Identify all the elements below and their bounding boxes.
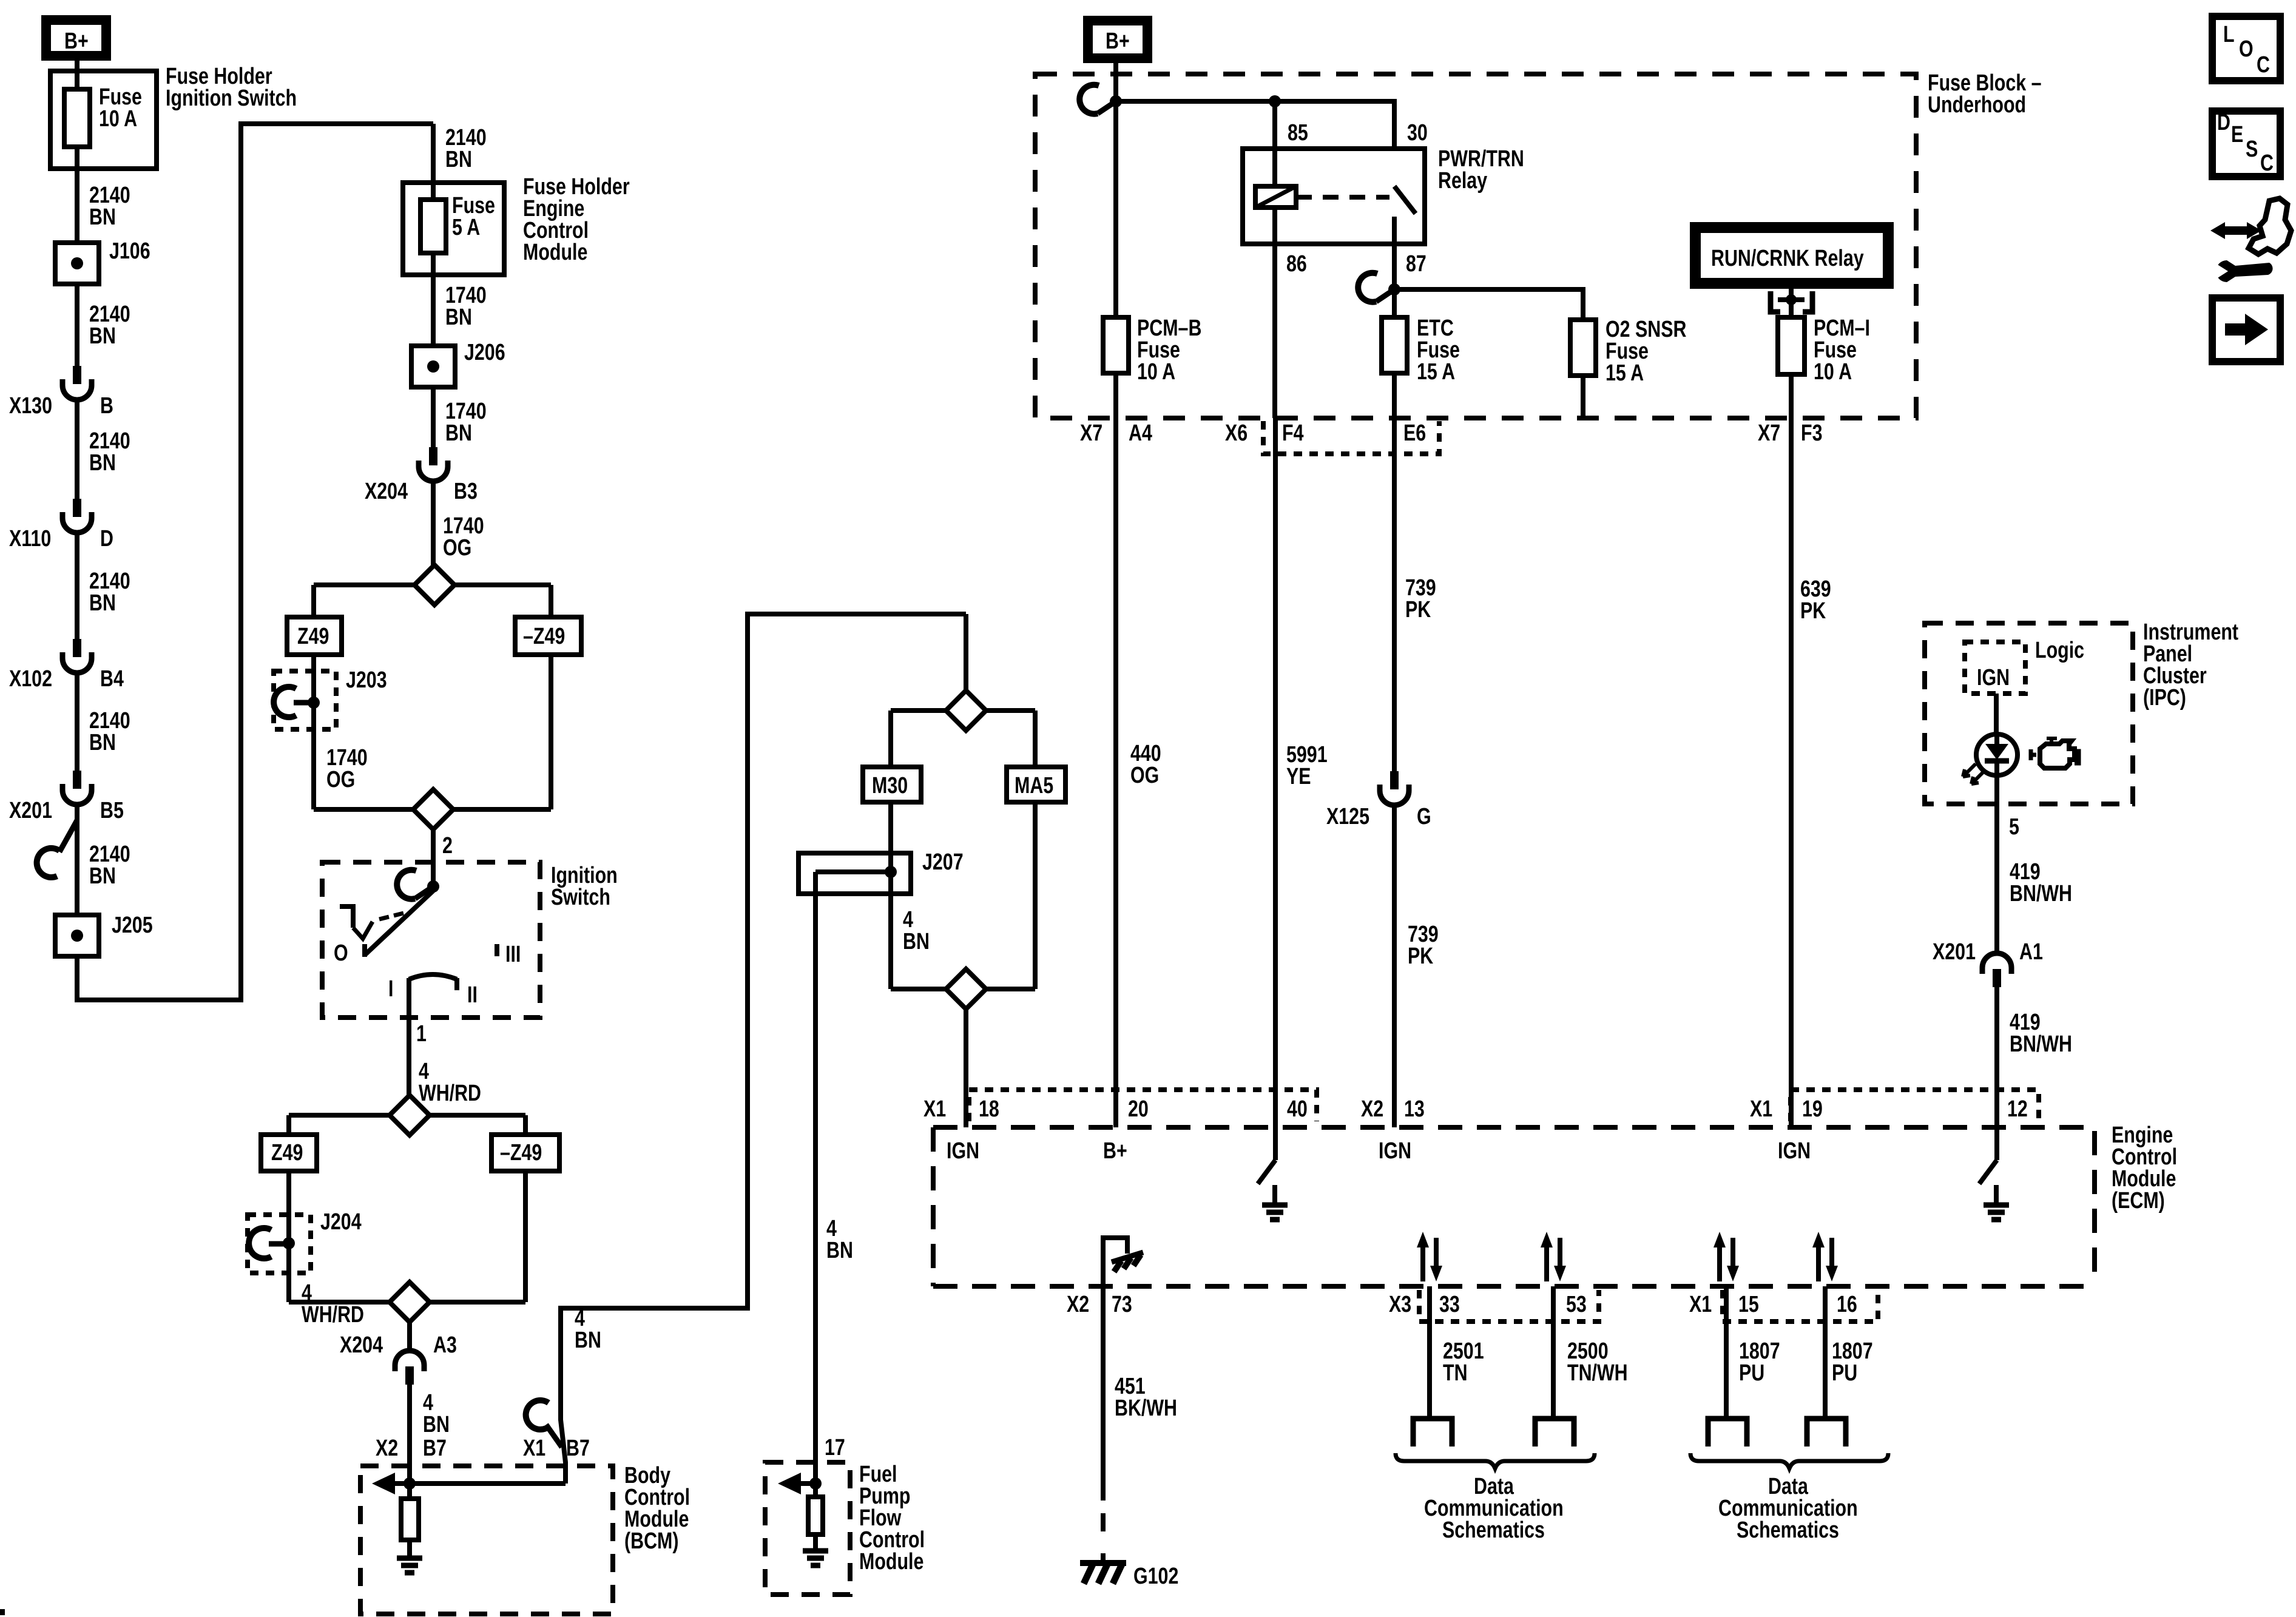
grounds distribution cell Z49 xyxy=(287,617,342,655)
svg-text:13: 13 xyxy=(1404,1096,1425,1122)
svg-text:(IPC): (IPC) xyxy=(2143,685,2186,711)
svg-text:B+: B+ xyxy=(64,29,89,54)
svg-text:RUN/CRNK Relay: RUN/CRNK Relay xyxy=(1711,246,1864,271)
wire 1807 PU (pin 15) xyxy=(1724,1286,1729,1419)
data link arrows at pins 33/53 xyxy=(1420,1245,1425,1281)
connector dashed box F4/E6 xyxy=(1263,421,1439,454)
connector X201 pin B5 xyxy=(73,771,81,789)
wire MA5 down xyxy=(1033,802,1038,989)
fuse block underhood dashed box xyxy=(1035,74,1916,418)
wire to ECM pin 13, label 739 PK xyxy=(1392,805,1397,1127)
svg-text:X2: X2 xyxy=(376,1436,398,1461)
svg-text:Ignition Switch: Ignition Switch xyxy=(166,86,297,111)
fuel pump module resistor xyxy=(813,1475,818,1497)
svg-text:X130: X130 xyxy=(9,393,52,419)
fuse holder Ignition Switch box xyxy=(50,71,157,169)
svg-text:BN: BN xyxy=(423,1412,450,1437)
svg-text:53: 53 xyxy=(1566,1292,1587,1317)
svg-text:Underhood: Underhood xyxy=(1928,92,2026,118)
svg-text:G102: G102 xyxy=(1133,1564,1178,1589)
svg-text:BK/WH: BK/WH xyxy=(1115,1396,1177,1421)
svg-text:PU: PU xyxy=(1832,1360,1857,1386)
svg-text:PK: PK xyxy=(1408,944,1433,969)
BCM internal resistor xyxy=(407,1484,412,1499)
ECM internal chassis ground at pin 73 xyxy=(1103,1238,1127,1286)
svg-text:X102: X102 xyxy=(9,666,52,692)
hook at 87 junction xyxy=(1358,273,1377,302)
wire E6 down, label 739 PK xyxy=(1392,418,1397,771)
wire IGN to indicator LED xyxy=(1994,694,1999,734)
wire terminal 87 down with junction xyxy=(1392,244,1397,317)
PCM-I fuse (10 A) xyxy=(1778,317,1805,374)
PWR/TRN relay box xyxy=(1243,149,1425,244)
svg-text:–Z49: –Z49 xyxy=(500,1140,542,1166)
svg-text:J205: J205 xyxy=(112,913,153,938)
instrument panel cluster dashed box xyxy=(1925,623,2133,804)
svg-text:B7: B7 xyxy=(566,1436,590,1461)
wire to ECM pin 18 xyxy=(964,1009,968,1127)
grounds cell -Z49 (lower) xyxy=(491,1135,559,1171)
svg-text:OG: OG xyxy=(443,535,471,561)
ECM pin connector strip right (19/12) xyxy=(1791,1090,2039,1121)
wire to ECM pin 12, label 419 BN/WH xyxy=(1994,987,1999,1127)
svg-text:Z49: Z49 xyxy=(271,1140,303,1166)
svg-text:M30: M30 xyxy=(872,773,908,798)
check engine icon xyxy=(2031,749,2036,760)
svg-text:B5: B5 xyxy=(100,798,124,823)
svg-text:X204: X204 xyxy=(340,1332,383,1358)
svg-text:S: S xyxy=(2246,137,2258,162)
svg-text:J106: J106 xyxy=(109,238,150,264)
svg-text:BN: BN xyxy=(445,147,472,172)
svg-text:Schematics: Schematics xyxy=(1737,1517,1839,1543)
wire from J205 down and around to ECM 5A fuse feed xyxy=(77,124,433,1000)
wire right branch lower xyxy=(523,1171,528,1302)
engine control module ECM dashed box xyxy=(933,1127,2095,1286)
logic dashed box with IGN xyxy=(1965,642,2025,694)
svg-text:18: 18 xyxy=(979,1096,999,1122)
ECM pin labels X2/13 xyxy=(1361,1096,1383,1122)
relay coil xyxy=(1255,186,1296,208)
svg-text:X7: X7 xyxy=(1080,420,1102,446)
wire 2140 BN segment 3 xyxy=(75,400,79,499)
svg-text:BN: BN xyxy=(826,1238,853,1263)
fuse holder Engine Control Module box xyxy=(403,183,504,275)
svg-text:B: B xyxy=(100,393,113,419)
terminal clip under RUN/CRNK relay xyxy=(1789,283,1794,317)
connector strip X3 (33/53) xyxy=(1419,1290,1599,1322)
svg-text:(ECM): (ECM) xyxy=(2112,1188,2165,1214)
wire 1740 OG to splice diamond xyxy=(431,481,436,565)
wire 2500 TN/WH xyxy=(1551,1286,1556,1419)
svg-text:Module: Module xyxy=(859,1549,923,1575)
svg-text:PK: PK xyxy=(1405,597,1431,623)
svg-text:X6: X6 xyxy=(1225,420,1248,446)
wire left branch through J204 xyxy=(286,1171,291,1302)
fuel pump module arrow and junction xyxy=(778,1473,801,1494)
ignition switch internal: junction dot and hook xyxy=(427,880,439,893)
ETC fuse (15 A) xyxy=(1382,317,1407,373)
splice J204 (dashed) xyxy=(248,1215,311,1273)
indicator LED (MIL) xyxy=(1976,734,2017,775)
hook lead at X201 xyxy=(59,820,77,852)
svg-text:I: I xyxy=(388,976,393,1002)
wire F4 to ECM pin 40, label 5991 YE xyxy=(1273,418,1278,1127)
svg-text:F3: F3 xyxy=(1801,420,1822,446)
svg-text:Module: Module xyxy=(523,240,587,265)
wire ignition sw pin 1 down, label 1 / 4 WH/RD xyxy=(407,978,411,1095)
svg-text:TN/WH: TN/WH xyxy=(1567,1360,1628,1386)
label I position xyxy=(388,976,393,1002)
relay dashed actuator link xyxy=(1296,195,1389,200)
svg-text:2: 2 xyxy=(442,833,453,859)
labels X1 B7 xyxy=(523,1436,545,1461)
splice J203 (dashed) xyxy=(274,671,336,729)
svg-text:J204: J204 xyxy=(320,1209,362,1235)
legend icon wrench and arrow xyxy=(2210,222,2261,239)
svg-text:G: G xyxy=(1417,804,1431,829)
svg-text:O: O xyxy=(2239,36,2254,62)
O2 SNSR fuse (15 A) xyxy=(1570,320,1596,376)
svg-text:1: 1 xyxy=(416,1021,427,1047)
svg-text:BN: BN xyxy=(445,420,472,446)
svg-text:C: C xyxy=(2260,150,2274,176)
brace data communication right xyxy=(1690,1453,1888,1468)
ECM internal ground switch at pin 40 xyxy=(1273,1127,1278,1160)
svg-text:85: 85 xyxy=(1288,120,1308,146)
svg-text:15 A: 15 A xyxy=(1606,360,1644,386)
svg-text:17: 17 xyxy=(825,1435,845,1460)
svg-text:IGN: IGN xyxy=(1977,665,2010,690)
ignition switch OFF contact bracket xyxy=(340,906,353,928)
svg-text:BN: BN xyxy=(89,730,116,755)
svg-text:X110: X110 xyxy=(9,526,51,552)
svg-text:73: 73 xyxy=(1112,1292,1132,1317)
svg-text:15 A: 15 A xyxy=(1417,359,1455,385)
svg-text:B+: B+ xyxy=(1103,1138,1127,1164)
wire label 4 BN (riser) xyxy=(575,1306,585,1331)
relay switch blade xyxy=(1394,186,1416,214)
svg-text:F4: F4 xyxy=(1282,420,1303,446)
svg-text:J203: J203 xyxy=(346,667,387,693)
wire 2501 TN xyxy=(1427,1286,1432,1419)
svg-text:X1: X1 xyxy=(1689,1292,1712,1317)
splice diamond (top of M30 loop) xyxy=(891,708,1035,713)
svg-text:B+: B+ xyxy=(1106,29,1130,54)
svg-text:MA5: MA5 xyxy=(1015,773,1053,798)
svg-text:X2: X2 xyxy=(1067,1292,1089,1317)
svg-text:BN: BN xyxy=(445,305,472,330)
svg-text:D: D xyxy=(2217,110,2230,135)
splice diamond (bottom of M30 loop) xyxy=(891,987,1035,991)
splice J106 xyxy=(55,243,99,284)
svg-text:E6: E6 xyxy=(1403,420,1426,446)
splice J206 xyxy=(411,346,455,387)
splice J205 xyxy=(55,915,99,956)
splice diamond (top of Z49 loop) xyxy=(314,582,551,587)
wire B+ down to bus junction xyxy=(1113,63,1118,101)
svg-text:IGN: IGN xyxy=(1379,1138,1411,1164)
hook at bus left end xyxy=(1079,85,1099,114)
ECM internal labels IGN / B+ / IGN / IGN xyxy=(947,1138,979,1164)
fuse block bottom terminal labels xyxy=(1080,420,1102,446)
relay terminal labels 86 / 87 xyxy=(1286,251,1307,277)
wire 2140 BN segment 1 xyxy=(75,169,79,243)
wire IPC pin 5 down xyxy=(1994,776,1999,953)
svg-text:III: III xyxy=(505,942,521,967)
wire terminal 86 down to F4 xyxy=(1272,244,1277,418)
svg-text:10 A: 10 A xyxy=(99,106,137,132)
wire F3 to ECM pin 19, label 639 PK xyxy=(1789,418,1794,1127)
svg-text:BN: BN xyxy=(89,323,116,349)
fuse cell M30 xyxy=(863,767,921,802)
data link arrows at pins 15/16 xyxy=(1717,1245,1722,1281)
svg-text:33: 33 xyxy=(1439,1292,1460,1317)
wire 2140 BN segment 5 xyxy=(75,673,79,771)
svg-text:10 A: 10 A xyxy=(1814,359,1852,385)
PCM-B fuse (10 A) xyxy=(1113,101,1118,418)
ground G102 xyxy=(1101,1553,1106,1563)
LED emission arrows xyxy=(1963,764,1976,777)
label II position xyxy=(467,982,478,1008)
svg-text:Schematics: Schematics xyxy=(1442,1517,1545,1543)
svg-text:OG: OG xyxy=(1130,763,1159,788)
wire 1740 BN segment 1 xyxy=(431,275,436,346)
svg-text:PU: PU xyxy=(1739,1360,1764,1386)
ECM pin connector strip left (18/20/40) xyxy=(969,1090,1317,1121)
svg-text:30: 30 xyxy=(1407,120,1428,146)
svg-text:A4: A4 xyxy=(1129,420,1152,446)
svg-text:TN: TN xyxy=(1443,1360,1468,1386)
svg-text:J207: J207 xyxy=(922,849,964,875)
svg-text:D: D xyxy=(100,526,113,552)
svg-text:86: 86 xyxy=(1286,251,1307,277)
fuse F (10 A) inside holder xyxy=(75,71,79,169)
wire M30 down through J207 xyxy=(888,802,893,989)
svg-text:WH/RD: WH/RD xyxy=(302,1302,364,1328)
legend icon DESC xyxy=(2212,111,2280,177)
svg-text:PK: PK xyxy=(1800,598,1826,624)
fuse cell MA5 xyxy=(1007,767,1065,802)
svg-text:BN: BN xyxy=(89,863,116,889)
power symbol B+ (battery feed, left) xyxy=(46,20,106,56)
wire right branch xyxy=(549,655,553,809)
svg-text:X3: X3 xyxy=(1389,1292,1411,1317)
svg-text:B3: B3 xyxy=(454,479,478,504)
branch wire to O2 SNSR fuse xyxy=(1394,289,1583,320)
svg-text:B4: B4 xyxy=(100,666,124,692)
svg-text:Switch: Switch xyxy=(551,885,610,910)
fuel pump module ground xyxy=(803,1548,828,1554)
bus wire to relay terminals 85 and 30 xyxy=(1116,101,1394,149)
svg-text:BN: BN xyxy=(903,929,930,954)
labels X2 B7 at BCM xyxy=(376,1436,398,1461)
wire label 4 BN below J207 xyxy=(903,907,913,933)
svg-text:40: 40 xyxy=(1287,1096,1308,1122)
svg-text:Relay: Relay xyxy=(1438,168,1487,194)
brace data communication left xyxy=(1396,1453,1595,1468)
fuel pump flow control module dashed box xyxy=(765,1462,850,1595)
wire label 2140 BN at top of riser xyxy=(445,125,487,150)
fuse F (5 A) inside holder xyxy=(431,124,436,275)
position arc I-II xyxy=(409,974,457,979)
svg-text:BN: BN xyxy=(89,450,116,476)
svg-text:–Z49: –Z49 xyxy=(523,624,565,649)
svg-text:E: E xyxy=(2231,122,2243,147)
wire 451 BK/WH to G102 xyxy=(1101,1286,1106,1482)
svg-text:20: 20 xyxy=(1128,1096,1149,1122)
svg-text:19: 19 xyxy=(1802,1096,1823,1122)
connector X204 pin B3 xyxy=(429,447,437,465)
svg-text:BN/WH: BN/WH xyxy=(2010,1031,2072,1057)
connector strip X1 (15/16) xyxy=(1723,1290,1878,1322)
splice J207 (box with tap) xyxy=(799,853,911,894)
svg-text:WH/RD: WH/RD xyxy=(419,1081,481,1106)
wire A4 to ECM pin 20, label 440 OG xyxy=(1113,418,1118,1127)
wire B+ to fuse holder xyxy=(75,61,79,71)
body control module BCM dashed box xyxy=(360,1466,613,1614)
svg-text:BN: BN xyxy=(89,204,116,230)
svg-text:B7: B7 xyxy=(423,1436,447,1461)
label O (off position) xyxy=(334,940,348,966)
wire 1740 BN segment 2 xyxy=(431,387,436,447)
relay terminal labels 85 / 30 xyxy=(1288,120,1308,146)
wire 2140 BN segment 6 xyxy=(75,805,79,915)
svg-text:X1: X1 xyxy=(523,1436,545,1461)
wire 2140 BN segment 4 xyxy=(75,533,79,639)
wire 4 BN into BCM xyxy=(407,1385,412,1487)
labels X2 / 73 xyxy=(1067,1292,1089,1317)
connector X130 pin B xyxy=(73,366,81,384)
svg-text:A3: A3 xyxy=(433,1332,457,1358)
svg-text:X125: X125 xyxy=(1326,804,1369,829)
svg-text:BN/WH: BN/WH xyxy=(2010,881,2072,906)
svg-text:X204: X204 xyxy=(365,479,408,504)
label III position with tick xyxy=(495,944,499,956)
wire to ignition switch pin 2 xyxy=(431,829,436,888)
svg-text:X1: X1 xyxy=(923,1096,946,1122)
svg-text:YE: YE xyxy=(1286,764,1311,789)
wire 1807 PU (pin 16) xyxy=(1823,1286,1828,1419)
stray mark bottom-left xyxy=(0,1609,5,1615)
power symbol B+ (battery feed, right) xyxy=(1088,21,1147,58)
svg-text:10 A: 10 A xyxy=(1137,359,1175,385)
svg-text:IGN: IGN xyxy=(947,1138,979,1164)
wire label 4 WH/RD (below J204) xyxy=(302,1280,312,1306)
legend icon LOC xyxy=(2212,16,2280,81)
svg-text:X201: X201 xyxy=(1933,939,1976,965)
grounds distribution cell -Z49 xyxy=(515,617,581,655)
wire label 1740 OG (below J203) xyxy=(326,745,368,771)
svg-text:16: 16 xyxy=(1837,1292,1857,1317)
connector X125 pin G xyxy=(1390,771,1399,789)
svg-text:Z49: Z49 xyxy=(297,624,329,649)
BCM internal ground xyxy=(397,1556,422,1561)
svg-text:L: L xyxy=(2223,22,2235,47)
svg-text:OG: OG xyxy=(326,767,355,792)
svg-text:BN: BN xyxy=(575,1328,601,1353)
wire 4 BN from X1 B7 riser xyxy=(561,614,966,1484)
svg-text:J206: J206 xyxy=(464,340,505,365)
splice diamond (bottom of J204 loop) xyxy=(289,1300,525,1305)
legend icon arrow (next page) xyxy=(2212,298,2280,362)
wire left branch through J203 xyxy=(311,655,316,809)
grounds cell Z49 (lower) xyxy=(261,1135,317,1171)
wire 2140 BN segment 2 xyxy=(75,284,79,366)
svg-text:Logic: Logic xyxy=(2035,638,2084,663)
svg-text:5: 5 xyxy=(2009,814,2019,840)
BCM internal arrow and junction xyxy=(372,1473,395,1494)
svg-text:X7: X7 xyxy=(1758,420,1780,446)
splice diamond (bottom of Z49 loop) xyxy=(314,807,551,812)
svg-text:II: II xyxy=(467,982,478,1008)
svg-text:87: 87 xyxy=(1406,251,1427,277)
off-page terminals for data wires xyxy=(1413,1419,1452,1447)
svg-text:15: 15 xyxy=(1738,1292,1759,1317)
wire J207 tap down to fuel pump module xyxy=(813,872,818,1475)
ECM internal ground switch at pin 12 xyxy=(1994,1127,1999,1160)
svg-text:IGN: IGN xyxy=(1778,1138,1811,1164)
svg-text:12: 12 xyxy=(2007,1096,2028,1122)
ignition switch dashed box xyxy=(322,862,540,1018)
svg-text:(BCM): (BCM) xyxy=(624,1528,678,1554)
ignition switch blade (pivot to O position) xyxy=(365,891,433,955)
splice diamond (top of J204 loop) xyxy=(289,1113,525,1118)
svg-text:A1: A1 xyxy=(2019,939,2043,965)
svg-text:BN: BN xyxy=(89,590,116,616)
connector X201 pin A1 xyxy=(1982,953,2011,974)
RUN/CRNK relay cell xyxy=(1695,228,1888,283)
hook at X1 B7 wire xyxy=(526,1400,549,1430)
svg-text:X1: X1 xyxy=(1750,1096,1772,1122)
svg-text:X2: X2 xyxy=(1361,1096,1383,1122)
svg-text:X201: X201 xyxy=(9,798,52,823)
svg-text:5 A: 5 A xyxy=(452,215,480,240)
svg-text:O: O xyxy=(334,940,348,966)
connector X204 pin A3 xyxy=(407,1322,412,1352)
svg-text:C: C xyxy=(2257,52,2270,78)
connector X102 pin B4 xyxy=(73,639,81,657)
connector X110 pin D xyxy=(73,499,81,517)
